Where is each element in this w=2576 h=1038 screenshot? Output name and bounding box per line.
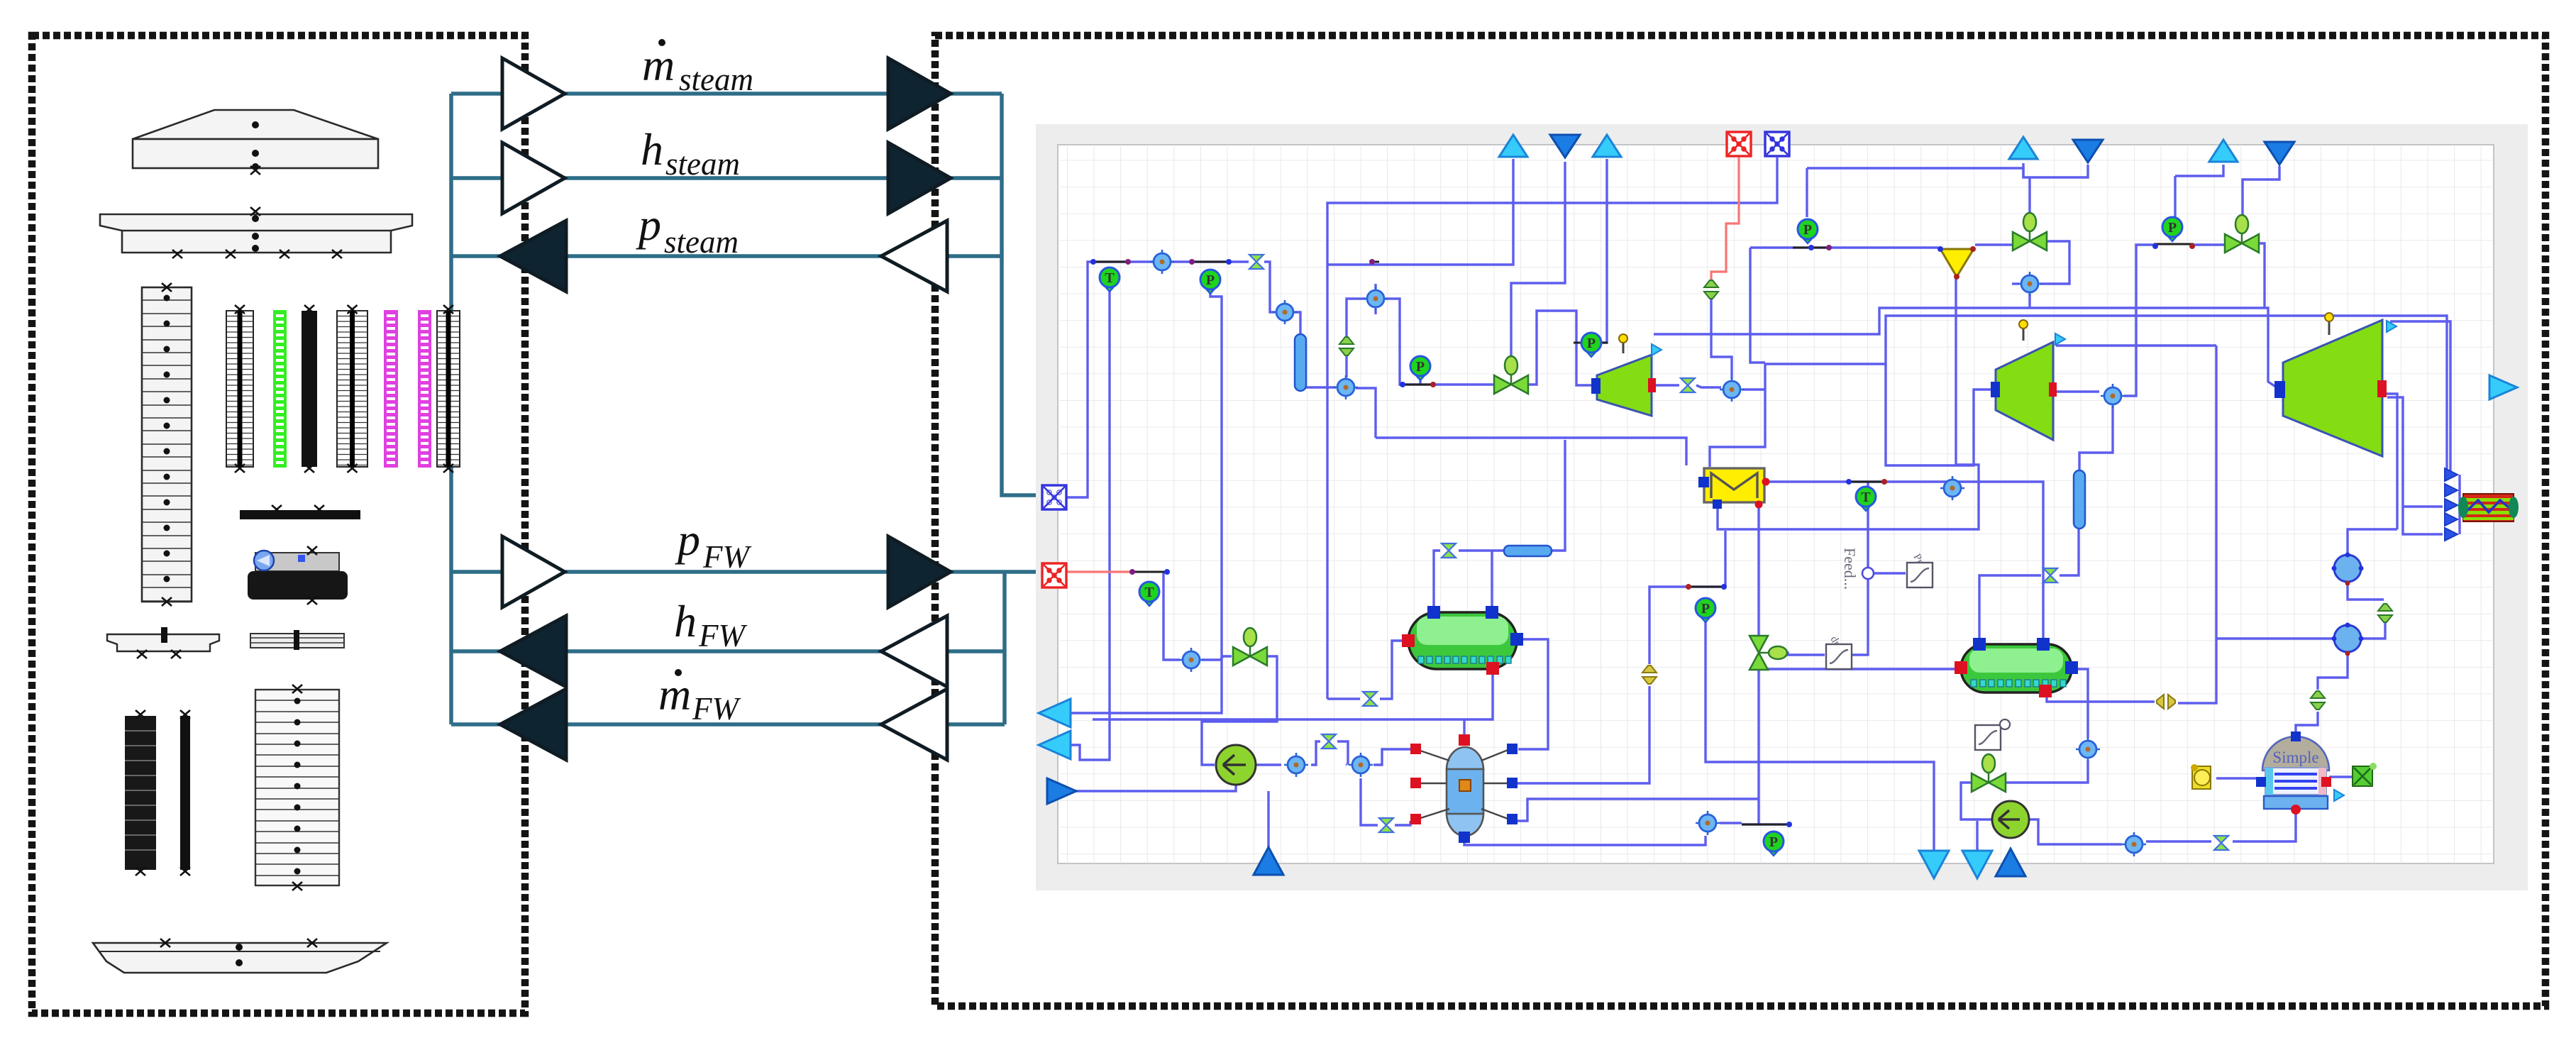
vent cyan 2 [1593, 135, 1621, 157]
wire FWH1 TRport riser [1491, 551, 1493, 611]
wire mixer c6 to pill2 [2079, 406, 2113, 470]
wire T9 stem and signal blocks [1852, 482, 1906, 655]
pump 2 [1992, 801, 2029, 838]
valve hg7 [1681, 378, 1695, 392]
condenser dome Simple [2256, 731, 2344, 815]
wire mixer c7 bottom [2028, 294, 2030, 308]
aircooled condenser HX [2458, 494, 2519, 521]
wire staircase branch turbine2 inlet [1886, 364, 1991, 465]
input arrow m_steam left [502, 58, 565, 129]
wire turbine2 exhaust [2056, 390, 2099, 392]
wire mixer d1 to valve to d2 [2348, 582, 2385, 639]
wire P5 riser [1807, 168, 2023, 217]
wire turbine3 top arrow [2390, 321, 2450, 473]
wire mixer d2 left branch [2178, 346, 2334, 703]
svg-text:h: h [674, 596, 697, 646]
label p_steam [636, 199, 739, 260]
svg-text:FW: FW [702, 539, 751, 575]
svg-text:p: p [636, 199, 661, 250]
wire drum MR to valve2325 [1516, 587, 1724, 783]
wire exhaust to mixer d1 [2348, 529, 2397, 556]
wire dome drain [2146, 812, 2296, 841]
wire drum top stub [1463, 719, 1465, 738]
mixer m3 [1364, 287, 1388, 311]
wire tee2432 up [1724, 531, 1726, 587]
mixer d2 [2332, 623, 2364, 656]
svg-text:P: P [1769, 834, 1778, 850]
svg-text:P: P [1416, 359, 1425, 375]
left model boundary dashed box [32, 35, 525, 1013]
control valve C2 [2225, 215, 2259, 253]
wire spray red valve blue part [1710, 296, 1712, 297]
svg-text:T: T [1144, 585, 1154, 600]
connector steam blue [1042, 485, 1066, 509]
magenta tube bank 1 [385, 311, 397, 467]
feedwater heater 2 [1955, 638, 2078, 697]
bottom ash hopper [93, 943, 387, 973]
wire signal block2 to valveC3 [1779, 653, 1825, 655]
upper header [100, 214, 412, 253]
wire T sensor drain to outlet2 [1071, 289, 1110, 760]
output arrow h_FW left [500, 616, 566, 687]
output arrow h_FW right [881, 616, 947, 687]
wire m3 to gland valve [1347, 299, 1686, 465]
wire pump2 suction [1961, 783, 1992, 819]
wire P3 tick [1419, 376, 1421, 385]
wire dome aux right [2329, 775, 2352, 778]
wire valveC1 to mixer c7 loop [2040, 241, 2069, 284]
wire mixer m4 to staircase [1742, 388, 1765, 390]
downcomer tube bank tall [142, 287, 192, 602]
valve bf yellow [2157, 695, 2175, 709]
vent cyan 3 [2009, 137, 2038, 159]
evaporator tube bank 1 [226, 311, 253, 467]
wire envelope staircase feed [1710, 316, 2447, 473]
sensor P7 [1696, 598, 1715, 622]
wire FWH1 bottom drain [1093, 670, 1493, 719]
mixer a [1284, 753, 1308, 777]
wire valveC5 to pump1 [1202, 656, 1277, 765]
turbine IP [1991, 320, 2065, 440]
wire red xconn to T8 [1163, 572, 1180, 660]
wire yellow tri top line [1750, 245, 2013, 363]
svg-text:T: T [1105, 270, 1115, 286]
mixer m2 [1334, 375, 1358, 399]
circulation pump unit [255, 553, 339, 571]
valve hg5 [1322, 734, 1336, 749]
fan green [2353, 763, 2377, 786]
junction feed [1862, 568, 1874, 579]
mixer e1 [2122, 832, 2146, 856]
valve hg2 [1363, 692, 1377, 706]
mixer c5 [2076, 737, 2100, 761]
wire valveC2 stem [2243, 166, 2279, 228]
valve bf1 [1704, 280, 1718, 299]
wire mixer c6 riser to P6 line [2124, 245, 2228, 396]
wire mixer m4 top from spray valve [1711, 297, 1732, 379]
magenta tube bank 2 [419, 311, 431, 467]
input arrow h_steam left [502, 143, 565, 214]
green tube bank [274, 311, 286, 467]
source blue up 2 [1254, 847, 1283, 875]
drum marks [252, 121, 259, 252]
sensor P3 [1410, 356, 1430, 380]
wire mixer m3 branches [1374, 284, 1376, 314]
wire header riser y286 [1327, 158, 1777, 699]
mixer m4 [1720, 377, 1744, 402]
sensor P2 [1200, 270, 1220, 294]
valve bf3 [2311, 691, 2325, 710]
sensor T9 [1856, 487, 1876, 511]
accumulator pill 1 [1295, 334, 1306, 391]
dark tube bank B [180, 716, 190, 870]
red signal wire FW pressure [1067, 158, 1739, 572]
svg-text:steam: steam [679, 62, 753, 97]
valve hg8 [2043, 568, 2057, 583]
svg-text:steam: steam [665, 146, 740, 182]
sensor P6 [2162, 217, 2182, 241]
drain cyan down 2 [1962, 851, 1992, 878]
grid tube bank C [255, 690, 339, 885]
sensor T1 [1100, 267, 1120, 292]
outlet cyan right big [2489, 375, 2517, 399]
input arrow m_steam right [888, 58, 951, 129]
wire valveC1 top stem [2023, 163, 2088, 213]
wire small arrows bracket [2458, 475, 2460, 534]
wire turbine1 bleed line [1654, 308, 2279, 389]
wire yellow valve to FWH2 [2047, 692, 2155, 702]
wire pill1h line [1434, 440, 1565, 612]
wire turbine1 exhaust [1654, 385, 1721, 387]
mixer c7 [2018, 272, 2042, 296]
wire turbine2 bleed [2056, 344, 2216, 346]
svg-text:p: p [675, 514, 700, 565]
wire mixer b to drum TL [1373, 749, 1410, 765]
output arrow m_FW right [881, 689, 947, 760]
svg-text:h: h [641, 124, 663, 175]
mixer e2 [1179, 648, 1203, 672]
connector top red [1727, 132, 1751, 156]
thin lined box [250, 634, 344, 648]
control valve C4 [1972, 754, 2006, 792]
wire steam inlet to header line [1066, 262, 1249, 497]
diagram canvas gray frame [1036, 124, 2528, 890]
tube bank rows [142, 300, 192, 601]
wire vent3 stem to P sensor [1603, 159, 1607, 343]
input arrow p_FW right [888, 536, 951, 607]
svg-text:FW: FW [692, 691, 741, 727]
wire FWH1 right to drum [1518, 639, 1548, 749]
wire valveC2 out [2259, 243, 2265, 250]
mixer b [1349, 753, 1373, 777]
inlet blue right tri [1047, 778, 1076, 804]
wire vent1 stem [1327, 159, 1513, 265]
wire P7 drain long [1706, 620, 1934, 851]
label m_steam [642, 39, 753, 97]
svg-text:m: m [658, 669, 691, 719]
deaerator drum [1410, 734, 1518, 843]
svg-text:P: P [1206, 272, 1215, 288]
superheater tube bank [337, 311, 367, 467]
wire valveC3 riser [1757, 506, 1759, 824]
wire valve3 stub [2263, 250, 2265, 308]
label h_steam [641, 124, 740, 182]
valve hg9 [2214, 836, 2228, 850]
mixer m1 [1273, 300, 1297, 324]
wire envelope bottom left to yellow tri [1718, 278, 1979, 529]
signal block PI [1975, 725, 2001, 750]
sink blue 3 [2265, 142, 2294, 165]
wire envelope right to FWH2 top right [1769, 482, 2043, 642]
wire P10 tee [1742, 823, 1788, 825]
signal bus lines [451, 94, 1043, 724]
wire dome aux left [2216, 777, 2263, 779]
wire valveC4 to mixer c5 [2006, 761, 2088, 783]
connector FW red [1042, 563, 1066, 587]
svg-text:m: m [642, 40, 675, 90]
wire drum bottom line [1464, 836, 1706, 845]
mixer c6 [2101, 384, 2125, 408]
wire pump1 out to mixer a [1256, 763, 1281, 766]
wire mixer c7 left stub [2012, 282, 2019, 285]
svg-text:P: P [1587, 336, 1596, 351]
wire vent2 stem to LP valve actuator [1511, 162, 1565, 355]
vent cyan 1 [1499, 135, 1527, 157]
mixer m0 [1150, 250, 1174, 274]
steam drum top [133, 110, 378, 139]
wire drum BR to riser [1515, 799, 1759, 821]
black header bar [240, 510, 360, 519]
mixer f1 [1940, 476, 1964, 500]
svg-text:Simple: Simple [2272, 749, 2318, 766]
wire column to mixer m2 [1300, 387, 1336, 391]
sensor P10 [1764, 832, 1784, 856]
svg-text:T: T [1861, 490, 1871, 505]
label h_FW [674, 596, 747, 653]
wire mixer e2 to valveC5 [1202, 656, 1232, 660]
outlet cyan left 1 [1039, 699, 1071, 727]
wire mixer m1 to column [1295, 312, 1300, 334]
output arrow p_steam right [881, 221, 947, 292]
pump 1 [1216, 745, 1256, 785]
vent cyan 4 [2209, 140, 2238, 162]
turbine HP [1591, 334, 1662, 416]
accumulator pill 1h [1504, 546, 1552, 556]
label m_FW [658, 669, 741, 727]
outlet cyan left 2 [1039, 731, 1071, 759]
black tube bank [302, 311, 317, 467]
source blue up 1 [1996, 849, 2025, 876]
svg-text:P: P [2168, 220, 2177, 236]
valve bf gold [1642, 666, 1657, 684]
mixer e0 [1696, 811, 1720, 835]
svg-text:P: P [1803, 222, 1812, 238]
dark tube bank A [125, 716, 156, 870]
sensor T8 [1139, 582, 1159, 606]
accumulator pill 2 [2074, 470, 2085, 529]
wire LP valve to turbine1 inlet [1527, 311, 1591, 385]
svg-text:P: P [1701, 601, 1710, 617]
turbine LP [2274, 313, 2397, 456]
economizer tube bank [437, 311, 460, 467]
valve bf gland [1339, 337, 1354, 355]
wire up tri feed [1267, 791, 1269, 849]
control valve C1 [2013, 213, 2047, 250]
wire mixer m2 to LP valve [1356, 388, 1376, 438]
wire valve to mixer m1 [1264, 262, 1275, 312]
svg-text:FW: FW [698, 618, 747, 653]
sink blue 2 [2073, 140, 2103, 162]
sensor P5 [1798, 219, 1818, 243]
connector top blue [1765, 132, 1789, 156]
output arrow m_FW left [500, 689, 566, 760]
wire td2 stem [1976, 821, 1978, 851]
signal block dr2 [1826, 644, 1852, 669]
diagram canvas inner grid [1058, 145, 2494, 863]
wire vent topC [2175, 165, 2223, 217]
desuperheater envelope [1698, 468, 1770, 509]
wire mixer a to hg5 to mixer b [1311, 741, 1348, 765]
control valve LP [1494, 356, 1528, 394]
valve hg6 [1379, 818, 1393, 832]
svg-text:Feed...: Feed... [1841, 548, 1859, 590]
wire inlet3 to pump1 [1076, 785, 1236, 791]
wire mixer c5 to FWH2 [2073, 669, 2088, 738]
valve hg1 [1249, 255, 1264, 269]
input arrow h_steam right [888, 143, 951, 214]
valve hg4 [1442, 543, 1456, 558]
relief yellow triangle [1940, 249, 1974, 277]
control valve C5 [1233, 628, 1267, 666]
input arrow p_FW left [502, 536, 565, 607]
wire FWH2 feed top left [1979, 529, 2079, 642]
svg-text:steam: steam [664, 224, 739, 260]
wire turbine3 exhaust double [2382, 394, 2443, 534]
feedwater heater 1 [1402, 606, 1523, 675]
label p_FW [675, 514, 751, 575]
wire FWH2 drain [1759, 668, 1955, 670]
lower header small [107, 634, 219, 651]
wire mixer d2 drain to dome [2296, 652, 2348, 735]
wire P sensor drain to outlet1 [1071, 289, 1222, 713]
wire riser to FWH1 left [1327, 641, 1405, 699]
output arrow p_steam left [500, 221, 566, 292]
wire cond mixer to pump2 [2029, 819, 2122, 844]
control valve C3 [1749, 636, 1787, 670]
signal block dr1 [1907, 563, 1933, 587]
fan yellow [2191, 764, 2211, 789]
right model boundary dashed box [935, 35, 2545, 1006]
mixer d1 [2332, 553, 2364, 586]
valve bf2 [2378, 604, 2392, 622]
wire e0 to tee [1720, 822, 1742, 824]
sink blue 1 [1550, 135, 1580, 158]
drain cyan down 1 [1919, 851, 1949, 878]
wire mixer b drain to drum BL [1361, 778, 1410, 825]
exhaust arrows to ACC [2445, 468, 2458, 481]
sensor P4 [1581, 333, 1601, 357]
